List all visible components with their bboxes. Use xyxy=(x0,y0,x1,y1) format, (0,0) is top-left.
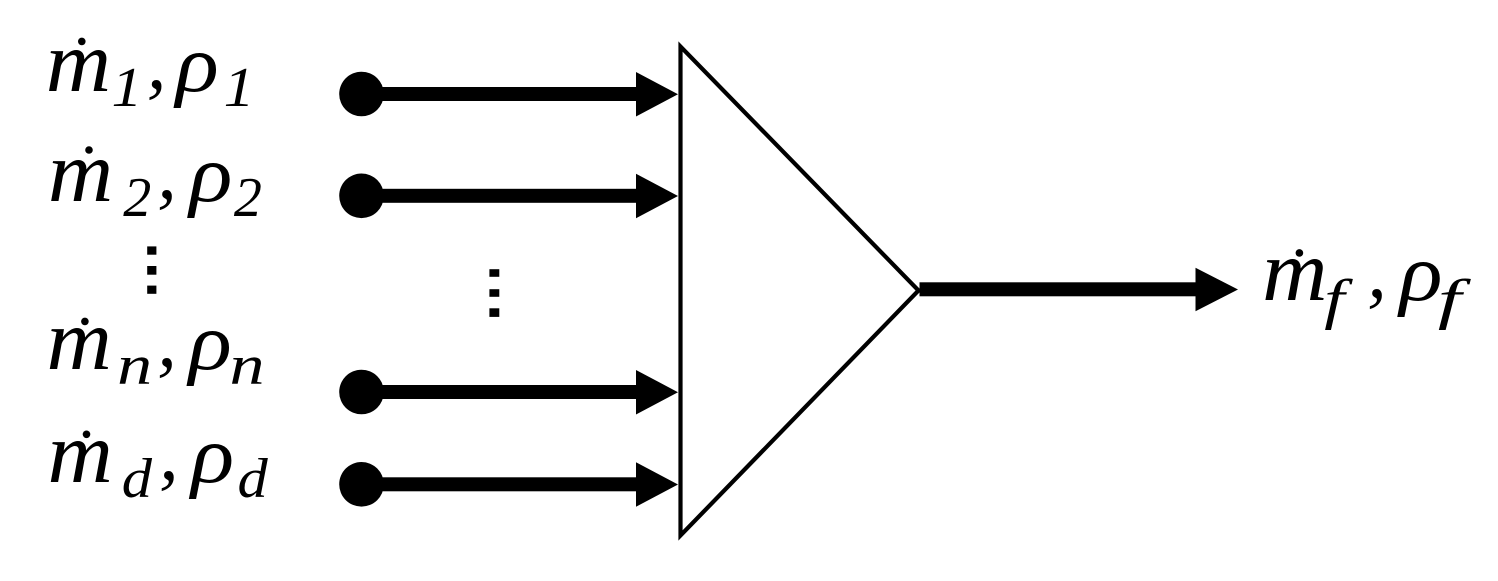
input arrow 3: arrowhead xyxy=(636,370,678,415)
mixer triangle xyxy=(681,47,919,536)
svg-text:m: m xyxy=(48,125,113,221)
svg-text:ρ: ρ xyxy=(186,130,232,219)
input arrow 3: node dot xyxy=(339,370,384,415)
input arrow 4: wire shaft xyxy=(362,477,637,491)
overdot of m-dot (L1) xyxy=(78,38,86,46)
svg-text:2: 2 xyxy=(234,167,262,229)
svg-text:,: , xyxy=(157,128,177,215)
output wire shaft xyxy=(920,282,1197,296)
input arrow 3: wire shaft xyxy=(362,385,637,399)
label m-dot 1, rho 1 (input 1) xyxy=(46,15,255,119)
input arrow 1: wire shaft xyxy=(362,87,637,101)
overdot of m-dot (Lf) xyxy=(1296,249,1304,257)
label m-dot f, rho f (output) xyxy=(1262,224,1472,331)
svg-text:d: d xyxy=(238,447,269,509)
svg-text:2: 2 xyxy=(123,167,151,229)
label m-dot d, rho d (input d) xyxy=(48,406,269,510)
svg-text:n: n xyxy=(229,335,264,397)
input arrow 2: wire shaft xyxy=(362,189,637,203)
svg-text:m: m xyxy=(1262,224,1327,320)
svg-text:,: , xyxy=(157,296,177,383)
overdot of m-dot (Ln) xyxy=(81,318,89,326)
input arrow 4: node dot xyxy=(339,462,384,507)
svg-text:ρ: ρ xyxy=(188,411,234,500)
svg-text:,: , xyxy=(159,409,179,496)
svg-text:n: n xyxy=(117,335,152,397)
label m-dot n, rho n (input n) xyxy=(47,293,265,397)
svg-text:d: d xyxy=(122,447,153,509)
label m-dot 2, rho 2 (input 2) xyxy=(48,125,262,229)
output arrowhead xyxy=(1196,268,1239,312)
svg-text:m: m xyxy=(46,15,111,111)
input arrow 4: arrowhead xyxy=(636,462,678,507)
overdot of m-dot (Ld) xyxy=(83,431,91,439)
input arrow 2: arrowhead xyxy=(636,174,678,219)
svg-text:ρ: ρ xyxy=(173,20,219,109)
vertical ellipsis (between arrows 2 and 3) xyxy=(489,269,499,317)
svg-text:m: m xyxy=(48,406,113,502)
overdot of m-dot (L2) xyxy=(85,146,93,154)
svg-text:1: 1 xyxy=(224,57,255,119)
svg-text:,: , xyxy=(147,18,167,105)
svg-text:ρ: ρ xyxy=(186,298,232,387)
input arrow 1: arrowhead xyxy=(636,72,678,117)
input arrow 2: node dot xyxy=(339,174,384,219)
input arrow 1: node dot xyxy=(339,72,384,117)
svg-text:1: 1 xyxy=(111,57,142,119)
vertical ellipsis (between labels 2 and n) xyxy=(147,246,156,293)
svg-text:ρ: ρ xyxy=(1396,229,1442,318)
svg-text:m: m xyxy=(47,293,112,389)
svg-text:,: , xyxy=(1367,227,1387,314)
